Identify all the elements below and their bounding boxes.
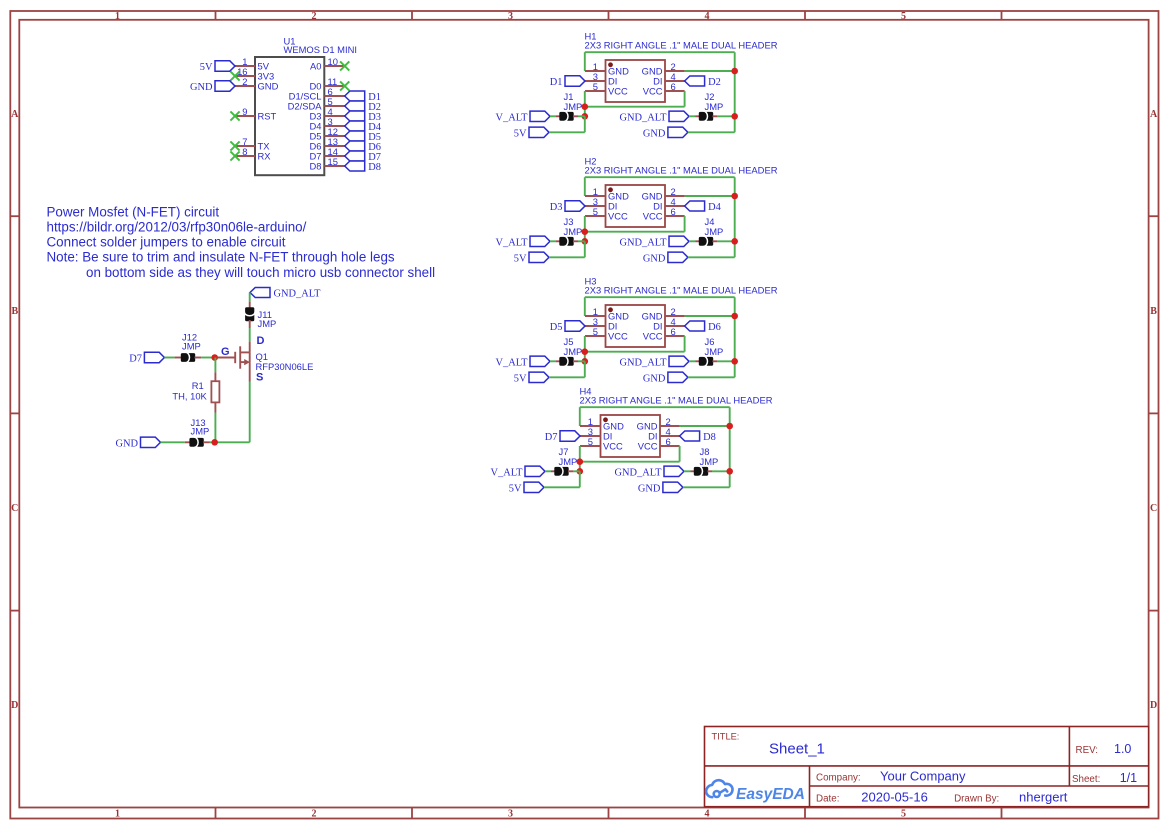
header H3 pin 3 (DI) <box>585 316 617 331</box>
svg-text:GND: GND <box>190 82 213 93</box>
svg-text:B: B <box>11 306 18 317</box>
pin wire J11 top <box>249 302 251 309</box>
svg-text:Your Company: Your Company <box>880 768 966 783</box>
svg-text:Sheet:: Sheet: <box>1072 774 1100 785</box>
header H1 body <box>606 60 666 102</box>
pin wire J3 left <box>556 240 560 242</box>
frame row tick right 3 <box>1149 610 1159 612</box>
wire GND right vertical <box>734 177 736 257</box>
svg-text:A: A <box>1150 109 1158 120</box>
svg-text:5: 5 <box>593 206 598 217</box>
net flag GND <box>668 252 688 262</box>
header H2 pin 4 (DI) <box>653 196 684 211</box>
solder jumper J5 <box>559 356 573 366</box>
wire pin2 to right vertical <box>685 70 735 72</box>
svg-text:6: 6 <box>671 326 676 337</box>
header H2 pin 1 (GND) <box>585 186 629 201</box>
pin wire J7 left <box>551 470 555 472</box>
net flag GND_ALT (J4) <box>669 236 689 246</box>
junction VCC loop <box>582 103 589 110</box>
svg-text:D: D <box>257 335 265 347</box>
svg-text:4: 4 <box>705 11 710 22</box>
wire GND to J13 <box>161 441 185 443</box>
wire 5V to vertical <box>549 131 585 133</box>
wire VCC left vertical <box>584 336 586 361</box>
U1 pin 6 (D1/SCL) <box>289 86 345 101</box>
svg-text:5: 5 <box>901 808 906 819</box>
net flag GND_ALT (drain top) <box>250 288 270 298</box>
wire V_ALT to J1 <box>550 115 556 117</box>
header H3 pin 1 (GND) <box>585 306 629 321</box>
U1 pin 4 (D3) <box>310 106 345 121</box>
U1 pin 15 (D8) <box>310 156 345 171</box>
wire GND to right vertical <box>688 256 735 258</box>
solder jumper J11 <box>244 307 255 321</box>
junction VCC loop <box>582 228 589 235</box>
wire J6 to right vertical <box>717 360 735 362</box>
wire GND top loop horizontal <box>585 51 735 53</box>
wire GND_ALT to J6 <box>689 360 696 362</box>
pin wire J12 left <box>175 357 182 359</box>
net flag D2 <box>685 76 705 86</box>
svg-text:3: 3 <box>508 11 513 22</box>
no-connect X on U1 pin 9 <box>230 111 239 120</box>
pin wire J13 right <box>203 441 209 443</box>
U1 pin 13 (D6) <box>310 136 345 151</box>
U1 pin 11 (D0) <box>310 76 345 91</box>
header H1 pin 3 (DI) <box>585 71 617 86</box>
header H4 pin-1 dot <box>603 417 608 422</box>
svg-text:JMP: JMP <box>705 226 724 237</box>
svg-text:V_ALT: V_ALT <box>496 358 529 369</box>
pin wire J1 left <box>556 115 560 117</box>
wire J13 to source node <box>210 441 250 443</box>
svg-text:JMP: JMP <box>564 346 583 357</box>
frame column tick bottom 5 <box>1001 808 1003 819</box>
wire V_ALT to J5 <box>550 360 556 362</box>
svg-text:D: D <box>11 700 18 711</box>
resistor R1 body <box>211 381 219 402</box>
wire pin2 to right vertical <box>685 315 735 317</box>
wire V_ALT to J3 <box>550 240 556 242</box>
U1 pin 3 (D4) <box>310 116 345 131</box>
header H4 pin 5 (VCC) <box>580 436 623 451</box>
svg-text:D8: D8 <box>703 432 716 443</box>
pin wire J4 right <box>713 240 718 242</box>
pin wire J7 right <box>568 470 573 472</box>
U1 pin 9 (RST) <box>235 106 277 121</box>
junction VCC jumper node <box>582 358 589 365</box>
svg-text:JMP: JMP <box>564 101 583 112</box>
header H1 pin 5 (VCC) <box>585 81 628 96</box>
svg-text:1/1: 1/1 <box>1120 771 1137 785</box>
frame column tick top 2 <box>411 11 413 20</box>
svg-text:C: C <box>11 503 18 514</box>
net flag GND <box>215 81 235 91</box>
wire GND top loop left vertical <box>584 177 586 196</box>
title block vertical REV divider <box>1068 727 1070 787</box>
svg-text:2: 2 <box>312 808 317 819</box>
pin wire J5 left <box>556 360 560 362</box>
no-connect X on U1 pin 7 <box>230 141 239 150</box>
svg-text:2X3 RIGHT ANGLE .1" MALE DUAL: 2X3 RIGHT ANGLE .1" MALE DUAL HEADER <box>580 394 773 405</box>
wire 5V to vertical <box>549 256 585 258</box>
pin wire J3 right <box>573 240 578 242</box>
wire pin2 to right vertical <box>685 195 735 197</box>
no-connect X on U1 pin 10 <box>340 61 349 70</box>
header H3 body <box>606 305 666 347</box>
svg-text:V_ALT: V_ALT <box>491 468 524 479</box>
svg-text:D4: D4 <box>708 202 722 213</box>
pin wire J2 left <box>696 115 700 117</box>
pin wire J1 right <box>573 115 578 117</box>
wire GND top loop left vertical <box>584 52 586 71</box>
header H2 pin-1 dot <box>608 187 613 192</box>
frame column tick top 1 <box>215 11 217 20</box>
wire GND top loop horizontal <box>580 406 730 408</box>
svg-text:GND: GND <box>258 81 279 92</box>
wire J11 to Q1 drain <box>249 328 251 342</box>
net flag V_ALT (J1) <box>530 111 550 121</box>
svg-text:D7: D7 <box>129 354 142 365</box>
net flag 5V <box>529 127 549 137</box>
U1 pin 10 (A0) <box>310 56 345 71</box>
frame column tick top 5 <box>1001 11 1003 20</box>
header H3 pin 6 (VCC) <box>643 326 685 341</box>
wire V_ALT to J7 <box>545 470 551 472</box>
junction VCC loop <box>582 348 589 355</box>
title block vertical logo divider <box>809 766 811 807</box>
net flag V_ALT (J7) <box>525 466 545 476</box>
svg-text:VCC: VCC <box>608 211 628 222</box>
svg-text:6: 6 <box>671 206 676 217</box>
pin wire J5 right <box>573 360 578 362</box>
wire J7 to junction <box>573 470 580 472</box>
svg-text:1: 1 <box>115 808 120 819</box>
svg-text:JMP: JMP <box>705 101 724 112</box>
svg-text:D1: D1 <box>550 77 563 88</box>
U1 pin 14 (D7) <box>310 146 345 161</box>
wire VCC right down <box>684 216 686 232</box>
junction VCC jumper node <box>582 238 589 245</box>
svg-text:B: B <box>1150 306 1157 317</box>
header H4 pin 2 (GND) <box>637 416 680 431</box>
svg-text:VCC: VCC <box>608 331 628 342</box>
solder jumper J1 <box>559 111 573 121</box>
wire VCC loop horizontal <box>585 106 685 108</box>
svg-text:TH, 10K: TH, 10K <box>172 391 207 402</box>
svg-text:2X3 RIGHT ANGLE .1" MALE DUAL: 2X3 RIGHT ANGLE .1" MALE DUAL HEADER <box>585 284 778 295</box>
solder jumper J2 <box>699 111 713 121</box>
svg-text:EasyEDA: EasyEDA <box>736 786 805 803</box>
net flag 5V <box>529 372 549 382</box>
svg-text:on bottom side as they will to: on bottom side as they will touch micro … <box>86 265 435 280</box>
svg-text:2020-05-16: 2020-05-16 <box>861 789 928 804</box>
svg-text:15: 15 <box>328 156 338 167</box>
wire D7 to J12 <box>164 357 174 359</box>
svg-text:Connect solder jumpers to enab: Connect solder jumpers to enable circuit <box>47 235 286 250</box>
svg-text:WEMOS D1 MINI: WEMOS D1 MINI <box>284 44 357 55</box>
net flag GND_ALT (J8) <box>664 466 684 476</box>
net flag 5V <box>529 252 549 262</box>
net flag V_ALT (J3) <box>530 236 550 246</box>
junction GND jumper node <box>731 238 738 245</box>
net flag GND <box>663 482 683 492</box>
wire GND to right vertical <box>683 486 730 488</box>
svg-text:9: 9 <box>242 106 247 117</box>
solder jumper J6 <box>699 356 713 366</box>
svg-text:6: 6 <box>671 81 676 92</box>
solder jumper J12 <box>181 352 195 362</box>
wire GND right vertical <box>729 407 731 487</box>
svg-text:JMP: JMP <box>182 340 201 351</box>
svg-text:2: 2 <box>312 11 317 22</box>
junction GND node <box>211 439 218 446</box>
net flag GND (mosfet) <box>141 437 161 447</box>
junction VCC jumper node <box>582 113 589 120</box>
svg-text:GND: GND <box>643 254 666 265</box>
junction GND jumper node <box>731 358 738 365</box>
solder jumper J3 <box>559 236 573 246</box>
wire junction down to R1 <box>214 358 216 373</box>
pin wire R1 bottom <box>214 402 216 412</box>
header H4 pin 3 (DI) <box>580 426 612 441</box>
net flag GND <box>668 372 688 382</box>
svg-text:VCC: VCC <box>608 86 628 97</box>
svg-text:nhergert: nhergert <box>1019 789 1068 804</box>
svg-text:5: 5 <box>901 11 906 22</box>
no-connect X on U1 pin 11 <box>340 81 349 90</box>
net flag D4 <box>345 121 365 131</box>
svg-text:D6: D6 <box>708 322 721 333</box>
frame row tick left 2 <box>10 412 19 414</box>
header H4 pin 4 (DI) <box>648 426 679 441</box>
svg-text:D2: D2 <box>708 77 721 88</box>
svg-text:V_ALT: V_ALT <box>496 113 529 124</box>
wire 5V to vertical <box>544 486 580 488</box>
svg-text:Company:: Company: <box>816 772 861 783</box>
svg-text:RX: RX <box>258 151 272 162</box>
svg-text:D3: D3 <box>550 202 563 213</box>
svg-text:GND: GND <box>638 484 661 495</box>
wire 5V to vertical <box>549 376 585 378</box>
wire VCC left vertical <box>584 91 586 116</box>
svg-text:1: 1 <box>115 11 120 22</box>
svg-text:1.0: 1.0 <box>1114 742 1131 756</box>
svg-text:V_ALT: V_ALT <box>496 238 529 249</box>
net flag 5V <box>524 482 544 492</box>
solder jumper J7 <box>554 466 568 476</box>
wire GND_ALT to J11 <box>249 293 251 303</box>
U1 pin 7 (TX) <box>235 136 270 151</box>
svg-text:GND_ALT: GND_ALT <box>620 238 668 249</box>
junction VCC loop <box>577 458 584 465</box>
net flag D6 <box>685 321 705 331</box>
net flag D1 <box>345 91 365 101</box>
svg-text:RST: RST <box>258 111 277 122</box>
svg-text:5: 5 <box>593 81 598 92</box>
net flag GND_ALT (J6) <box>669 356 689 366</box>
pin wire J11 bottom <box>249 320 251 328</box>
wire J5 to junction <box>578 360 585 362</box>
wire pin2 to right vertical <box>680 425 730 427</box>
svg-text:JMP: JMP <box>705 346 724 357</box>
wire VCC right down <box>684 91 686 107</box>
svg-text:D: D <box>1150 700 1157 711</box>
wire GND_ALT to J2 <box>689 115 696 117</box>
svg-text:TITLE:: TITLE: <box>712 732 740 742</box>
header H2 pin 2 (GND) <box>642 186 685 201</box>
title block line below company row <box>810 785 1149 787</box>
wire VCC loop horizontal <box>585 231 685 233</box>
net flag GND <box>668 127 688 137</box>
wire VCC junction to 5V row <box>584 241 586 257</box>
svg-text:5V: 5V <box>514 374 527 385</box>
transistor Q1 body <box>215 346 250 368</box>
svg-text:JMP: JMP <box>191 426 210 437</box>
wire GND top loop horizontal <box>585 176 735 178</box>
svg-text:GND_ALT: GND_ALT <box>274 289 322 300</box>
junction GND right <box>731 68 738 75</box>
header H3 pin 2 (GND) <box>642 306 685 321</box>
frame row tick right 2 <box>1149 412 1159 414</box>
net flag D5 <box>345 131 365 141</box>
net flag D6 <box>345 141 365 151</box>
pin wire J8 left <box>691 470 695 472</box>
wire VCC left vertical <box>579 446 581 471</box>
svg-text:VCC: VCC <box>643 211 663 222</box>
frame column tick top 4 <box>804 11 806 20</box>
wire J8 to right vertical <box>712 470 730 472</box>
wire VCC right down <box>684 336 686 352</box>
frame row tick right 1 <box>1149 215 1159 217</box>
svg-text:Sheet_1: Sheet_1 <box>769 741 825 758</box>
net flag D8 <box>680 431 700 441</box>
wire GND top loop left vertical <box>584 297 586 316</box>
header H1 pin 2 (GND) <box>642 61 685 76</box>
net flag D7 (gate input) <box>144 352 164 362</box>
svg-text:D7: D7 <box>545 432 558 443</box>
pin wire Q1 source <box>249 362 251 381</box>
net flag V_ALT (J5) <box>530 356 550 366</box>
svg-text:D8: D8 <box>310 161 322 172</box>
no-connect X on U1 pin 8 <box>230 151 239 160</box>
wire VCC loop horizontal <box>580 461 680 463</box>
frame column tick bottom 1 <box>215 808 217 819</box>
svg-text:VCC: VCC <box>638 441 658 452</box>
wire GND top loop left vertical <box>579 407 581 426</box>
header H2 pin 3 (DI) <box>585 196 617 211</box>
junction GND right <box>731 193 738 200</box>
net flag D2 <box>345 101 365 111</box>
svg-text:2X3 RIGHT ANGLE .1" MALE DUAL: 2X3 RIGHT ANGLE .1" MALE DUAL HEADER <box>585 164 778 175</box>
header H4 pin 1 (GND) <box>580 416 624 431</box>
svg-text:VCC: VCC <box>643 86 663 97</box>
wire GND to right vertical <box>688 376 735 378</box>
svg-text:5: 5 <box>588 436 593 447</box>
svg-text:A: A <box>11 109 19 120</box>
svg-text:4: 4 <box>705 808 710 819</box>
wire VCC right down <box>679 446 681 462</box>
net flag D3 <box>345 111 365 121</box>
wire source to GND row <box>249 382 251 443</box>
svg-text:3: 3 <box>508 808 513 819</box>
svg-text:S: S <box>256 372 263 384</box>
svg-text:Drawn By:: Drawn By: <box>954 793 999 804</box>
frame row tick left 3 <box>10 610 19 612</box>
svg-text:8: 8 <box>242 146 247 157</box>
wire GND_ALT to J4 <box>689 240 696 242</box>
svg-text:Power Mosfet (N-FET) circuit: Power Mosfet (N-FET) circuit <box>47 204 220 219</box>
svg-text:A0: A0 <box>310 61 321 72</box>
svg-text:5V: 5V <box>509 484 522 495</box>
U1 pin 5 (D2/SDA) <box>288 96 345 111</box>
U1 pin 12 (D5) <box>310 126 345 141</box>
wire J3 to junction <box>578 240 585 242</box>
no-connect X on U1 pin 16 <box>230 71 239 80</box>
header H4 pin 6 (VCC) <box>638 436 680 451</box>
svg-text:6: 6 <box>666 436 671 447</box>
solder jumper J4 <box>699 236 713 246</box>
header H1 pin 4 (DI) <box>653 71 684 86</box>
svg-text:Note: Be sure to trim and insu: Note: Be sure to trim and insulate N-FET… <box>47 250 395 265</box>
net flag D1 <box>565 76 585 86</box>
net flag D3 <box>565 201 585 211</box>
U1 pin 2 (GND) <box>235 76 279 91</box>
svg-text:GND: GND <box>115 439 138 450</box>
U1 pin 16 (3V3) <box>235 66 274 81</box>
svg-text:2: 2 <box>242 76 247 87</box>
svg-text:C: C <box>1150 503 1157 514</box>
header H1 pin 1 (GND) <box>585 61 629 76</box>
net flag D4 <box>685 201 705 211</box>
svg-text:R1: R1 <box>192 380 204 391</box>
junction GND jumper node <box>726 468 733 475</box>
svg-text:VCC: VCC <box>643 331 663 342</box>
pin wire J6 left <box>696 360 700 362</box>
net flag D5 <box>565 321 585 331</box>
net flag D7 <box>560 431 580 441</box>
svg-text:5V: 5V <box>514 254 527 265</box>
junction GND jumper node <box>731 113 738 120</box>
svg-text:5V: 5V <box>200 62 213 73</box>
net flag GND_ALT (J2) <box>669 111 689 121</box>
svg-text:GND_ALT: GND_ALT <box>615 468 663 479</box>
IC U1 body <box>255 57 324 175</box>
svg-text:Date:: Date: <box>816 793 839 804</box>
wire GND right vertical <box>734 52 736 132</box>
wire GND_ALT to J8 <box>684 470 691 472</box>
svg-text:GND_ALT: GND_ALT <box>620 113 668 124</box>
svg-text:JMP: JMP <box>559 456 578 467</box>
wire GND top loop horizontal <box>585 296 735 298</box>
header H3 pin 4 (DI) <box>653 316 684 331</box>
pin wire Q1 drain <box>249 342 251 352</box>
frame row tick left 1 <box>10 215 19 217</box>
header H2 pin 6 (VCC) <box>643 206 685 221</box>
pin wire J6 right <box>713 360 718 362</box>
wire J4 to right vertical <box>717 240 735 242</box>
title block outline <box>705 727 1149 807</box>
header H2 pin 5 (VCC) <box>585 206 628 221</box>
solder jumper J8 <box>694 466 708 476</box>
svg-text:GND: GND <box>643 374 666 385</box>
EasyEDA logo cloud <box>706 780 732 797</box>
frame column tick top 3 <box>608 11 610 20</box>
svg-text:VCC: VCC <box>603 441 623 452</box>
header H4 body <box>601 415 661 457</box>
net flag 5V <box>215 61 235 71</box>
